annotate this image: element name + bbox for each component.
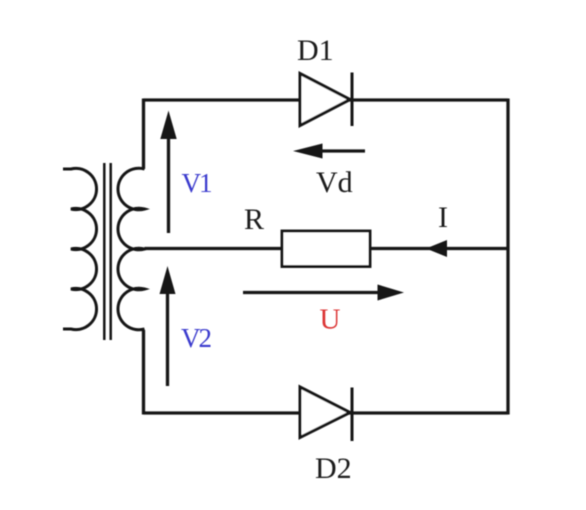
wire top horizontal [144,98,509,101]
svg-text:Vd: Vd [316,166,353,199]
diode D1 anode triangle [300,74,350,126]
arrow I (on middle wire) [426,240,447,257]
diode D1 cathode bar [351,73,354,127]
svg-text:V1: V1 [182,168,211,198]
arrow V1 shaft [167,137,170,233]
resistor R [282,231,370,267]
arrow Vd shaft [320,149,365,152]
svg-text:U: U [320,304,341,336]
diode D2 anode triangle [300,387,350,438]
arrow U shaft [243,291,380,294]
wire middle horizontal (center tap to right rail) [145,247,509,250]
diode D2 cathode bar [351,388,354,442]
arrow V2 shaft [166,292,169,386]
wire right vertical [506,99,509,415]
svg-text:D2: D2 [315,452,352,485]
svg-text:D1: D1 [297,34,334,67]
diode D2 [300,387,352,441]
svg-text:I: I [438,201,448,234]
arrow U [243,285,404,301]
diode D1 [300,73,352,127]
arrow V1 [160,111,176,234]
transformer secondary winding [118,168,145,330]
wire left vertical top segment [142,99,145,170]
transformer T1 [63,163,145,340]
arrow V2 head [160,266,176,294]
svg-text:R: R [244,203,264,236]
transformer core [104,163,110,340]
arrow U head [378,285,405,301]
wire left vertical bottom segment [142,330,145,415]
transformer primary winding [63,168,97,329]
svg-text:V2: V2 [181,323,211,353]
arrow Vd [293,144,365,159]
wire bottom horizontal [144,411,509,414]
arrow Vd head [293,144,323,159]
arrow V1 head [160,111,176,140]
arrow V2 [160,266,176,386]
